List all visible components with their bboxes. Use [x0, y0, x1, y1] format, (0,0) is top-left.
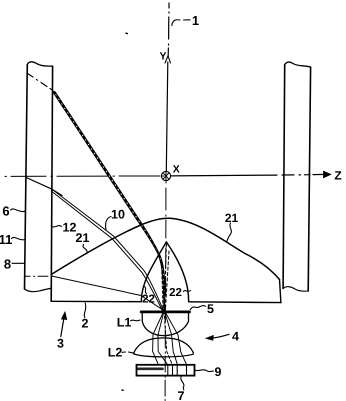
- leader 11: [12, 237, 26, 239]
- Y axis arrowhead: [165, 56, 171, 63]
- detector partitions 7: [168, 365, 187, 376]
- speck: [122, 33, 127, 390]
- svg-text:6: 6: [2, 203, 9, 218]
- arrow 4: [213, 334, 230, 338]
- ray band (dashed rungs): [54, 92, 164, 311]
- svg-text:12: 12: [63, 221, 77, 235]
- lens body bottom flange left: [51, 300, 141, 302]
- svg-text:L1: L1: [117, 316, 132, 330]
- svg-text:5: 5: [207, 302, 214, 316]
- ray band (solid) from plate to focus: [53, 91, 164, 310]
- focus blob: [162, 309, 165, 312]
- converging fan below focus through lenses to detector: [153, 311, 164, 365]
- ray band (second solid rail): [55, 92, 165, 310]
- leader 2: [84, 303, 86, 318]
- Z axis arrowhead: [324, 171, 331, 178]
- svg-text:9: 9: [215, 365, 222, 379]
- lens L1 flat top (thick): [141, 310, 189, 313]
- svg-text:10: 10: [111, 207, 125, 221]
- ray 10 double line b: [51, 191, 162, 310]
- leader 22 left: [145, 287, 147, 294]
- left plate bottom break (wavy): [25, 288, 52, 291]
- lens body bottom flange right: [189, 301, 281, 304]
- marginal ray dash-dot across plate bottom: [24, 275, 52, 277]
- right plate top break (wavy): [285, 62, 311, 67]
- inner dome surface 22 right: [166, 242, 188, 302]
- svg-text:X: X: [173, 164, 180, 176]
- ray 10 double line a: [51, 189, 163, 311]
- leader L1: [131, 319, 141, 322]
- left plate inner surface 12: [51, 67, 52, 302]
- right plate inner surface: [283, 65, 285, 289]
- ray 10 lower (single from plate): [26, 178, 62, 196]
- svg-text:Y: Y: [159, 51, 166, 63]
- right plate outer surface: [308, 67, 310, 291]
- svg-text:21: 21: [76, 231, 90, 245]
- leader 8: [12, 262, 25, 264]
- svg-text:21: 21: [225, 211, 239, 225]
- svg-text:22: 22: [142, 293, 155, 305]
- inner dome surface 22 left: [141, 242, 166, 302]
- leader 21 left: [83, 245, 87, 254]
- Y axis solid segment down to origin: [166, 62, 168, 172]
- marginal ray to focus: [53, 276, 164, 310]
- Y axis lower dash-dot segment: [165, 182, 167, 239]
- leader 12: [51, 226, 61, 227]
- lens L2 bottom surface: [134, 352, 193, 356]
- right plate bottom break (wavy): [283, 287, 308, 292]
- leader L2: [122, 352, 134, 353]
- lens body right vertical edge: [280, 280, 281, 303]
- lens L2 top surface: [134, 338, 193, 353]
- Z axis dash-dot left segment: [5, 175, 160, 177]
- leader 5: [190, 306, 205, 310]
- leader 10: [106, 217, 111, 230]
- left plate outer surface 6: [25, 65, 28, 290]
- svg-text:8: 8: [4, 257, 11, 272]
- label 1 leader: [172, 20, 190, 26]
- lens L1 body: [142, 313, 188, 335]
- detector block 9: [137, 365, 195, 376]
- Z axis solid right segment: [171, 174, 328, 176]
- svg-text:7: 7: [178, 389, 185, 401]
- left plate top break (wavy): [27, 62, 52, 66]
- origin symbol (X axis out of page): [161, 171, 170, 180]
- svg-text:4: 4: [232, 330, 239, 344]
- lens body 2: outer aspheric surface 21: [51, 218, 279, 279]
- leader 22 right: [184, 291, 191, 292]
- svg-text:2: 2: [82, 316, 89, 330]
- ray 10 chief (dash-dot inside plate): [28, 74, 53, 91]
- detector dark stripe: [138, 367, 163, 370]
- inner dashed rays from dome apex to focus: [164, 244, 166, 310]
- leader 7: [181, 377, 184, 390]
- svg-text:3: 3: [57, 337, 64, 351]
- leader 21 right: [227, 223, 231, 241]
- Y axis upper dash-dot segment: [167, 3, 170, 56]
- svg-text:22: 22: [169, 287, 182, 299]
- svg-text:11: 11: [0, 232, 12, 247]
- leader 6: [11, 209, 26, 212]
- svg-text:1: 1: [192, 13, 199, 28]
- svg-text:L2: L2: [108, 346, 123, 360]
- apex blob: [165, 242, 168, 245]
- leader 9: [195, 370, 214, 372]
- arrow 3: [61, 314, 65, 337]
- svg-text:Z: Z: [334, 169, 341, 183]
